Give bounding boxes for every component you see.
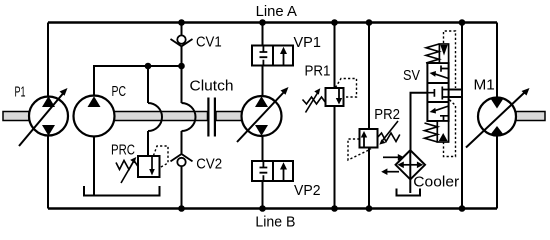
wire P2 to VP2 <box>262 136 264 161</box>
pilot PRC dashed <box>154 146 169 168</box>
valve SV body <box>427 63 448 121</box>
pilot SV dashed top <box>444 31 456 88</box>
node Line B PR2 <box>366 205 373 212</box>
wire SV right line <box>461 23 463 209</box>
check valve CV1 <box>171 39 193 46</box>
wire PRC branch <box>147 66 149 156</box>
SV top spring <box>426 44 439 63</box>
shaft bar clutch to P2 <box>216 112 242 121</box>
svg-text:SV: SV <box>403 67 420 84</box>
SV bottom spring <box>425 123 438 142</box>
SV left port wire <box>411 93 428 150</box>
node at 148,66 <box>145 63 152 70</box>
svg-text:VP2: VP2 <box>294 182 321 199</box>
node Line A PR1 <box>331 19 338 26</box>
svg-text:CV1: CV1 <box>196 33 222 50</box>
motor M1 <box>478 98 516 136</box>
valve PR2 <box>360 129 378 148</box>
svg-text:Line A: Line A <box>256 3 297 20</box>
wire left side top <box>47 23 49 98</box>
pilot PR2 dashed <box>348 139 371 160</box>
tank bracket left <box>84 186 160 196</box>
valve VP1 <box>252 46 293 66</box>
SV cell1 arrow <box>435 74 449 79</box>
SV cell3 arrow <box>435 106 449 111</box>
wire PR1 line <box>334 23 336 209</box>
wire right side top <box>496 23 498 99</box>
node Line B PR1 <box>331 205 338 212</box>
SV cell3 T <box>440 116 449 121</box>
svg-text:M1: M1 <box>474 76 495 93</box>
node Line B VP2 <box>259 205 266 212</box>
shaft bar right of M1 <box>516 112 545 121</box>
svg-text:CV2: CV2 <box>196 156 222 173</box>
wire PC bottom drain <box>93 137 95 197</box>
node Line B SV <box>459 205 466 212</box>
SV cell1 T <box>441 66 449 72</box>
shaft bar PC to clutch <box>114 112 208 121</box>
wire Line B <box>48 207 497 210</box>
spring PR2 <box>378 133 400 142</box>
wire hop over shaft 2 <box>182 103 196 131</box>
pilot PR1 dashed <box>336 79 357 98</box>
valve PRC <box>138 156 160 177</box>
check valve CV2 <box>171 154 193 161</box>
arrow PR1 adjustable <box>306 93 318 113</box>
wire PC top <box>94 66 182 96</box>
pump PC <box>74 96 115 137</box>
wire VP1 top <box>262 23 264 46</box>
wire right side bottom <box>496 135 498 209</box>
wire CV1 branch <box>181 23 183 67</box>
SV top pilot box <box>439 44 448 63</box>
node Line A PR2 <box>366 19 373 26</box>
svg-text:P1: P1 <box>15 84 26 101</box>
valve VP2 <box>252 161 293 181</box>
clutch <box>208 98 215 137</box>
SV bottom pilot box <box>437 121 448 142</box>
svg-text:PR1: PR1 <box>305 63 331 80</box>
wire hop over shaft <box>148 103 162 131</box>
node Line A VP1 <box>259 19 266 26</box>
tank bracket cooler <box>397 189 421 196</box>
SV right port wires <box>449 90 462 98</box>
svg-text:PC: PC <box>112 83 127 100</box>
svg-text:Line B: Line B <box>255 213 295 230</box>
svg-text:VP1: VP1 <box>294 34 321 51</box>
shaft bar left of P1 <box>3 112 29 121</box>
node Line A SV <box>459 19 466 26</box>
svg-text:Cooler: Cooler <box>413 174 459 191</box>
node Line A CV <box>178 19 185 26</box>
valve PR1 <box>326 88 344 106</box>
svg-text:Clutch: Clutch <box>190 77 234 94</box>
node Line B CV <box>178 205 185 212</box>
svg-text:PR2: PR2 <box>374 106 400 123</box>
wire left side bottom <box>47 135 49 209</box>
arrow PR2 adjustable <box>383 121 399 141</box>
SV cell2 left T <box>427 89 434 97</box>
cooler <box>396 150 425 179</box>
svg-text:PRC: PRC <box>111 141 135 158</box>
wire CV2 branch <box>181 66 183 209</box>
SV cell2 right T <box>442 87 448 100</box>
wire Line A <box>48 21 497 24</box>
arrow PRC adjustable <box>121 162 134 184</box>
pump P2 <box>242 96 282 136</box>
wire PR2 line <box>368 23 370 209</box>
pilot SV dashed bottom <box>444 100 456 157</box>
spring PRC <box>116 161 138 170</box>
spring PR1 <box>303 97 326 104</box>
pump P1 <box>29 97 68 136</box>
wire VP1 to P2 <box>262 66 264 97</box>
wire VP2 bottom <box>262 181 264 209</box>
node manifold CV <box>178 63 185 70</box>
